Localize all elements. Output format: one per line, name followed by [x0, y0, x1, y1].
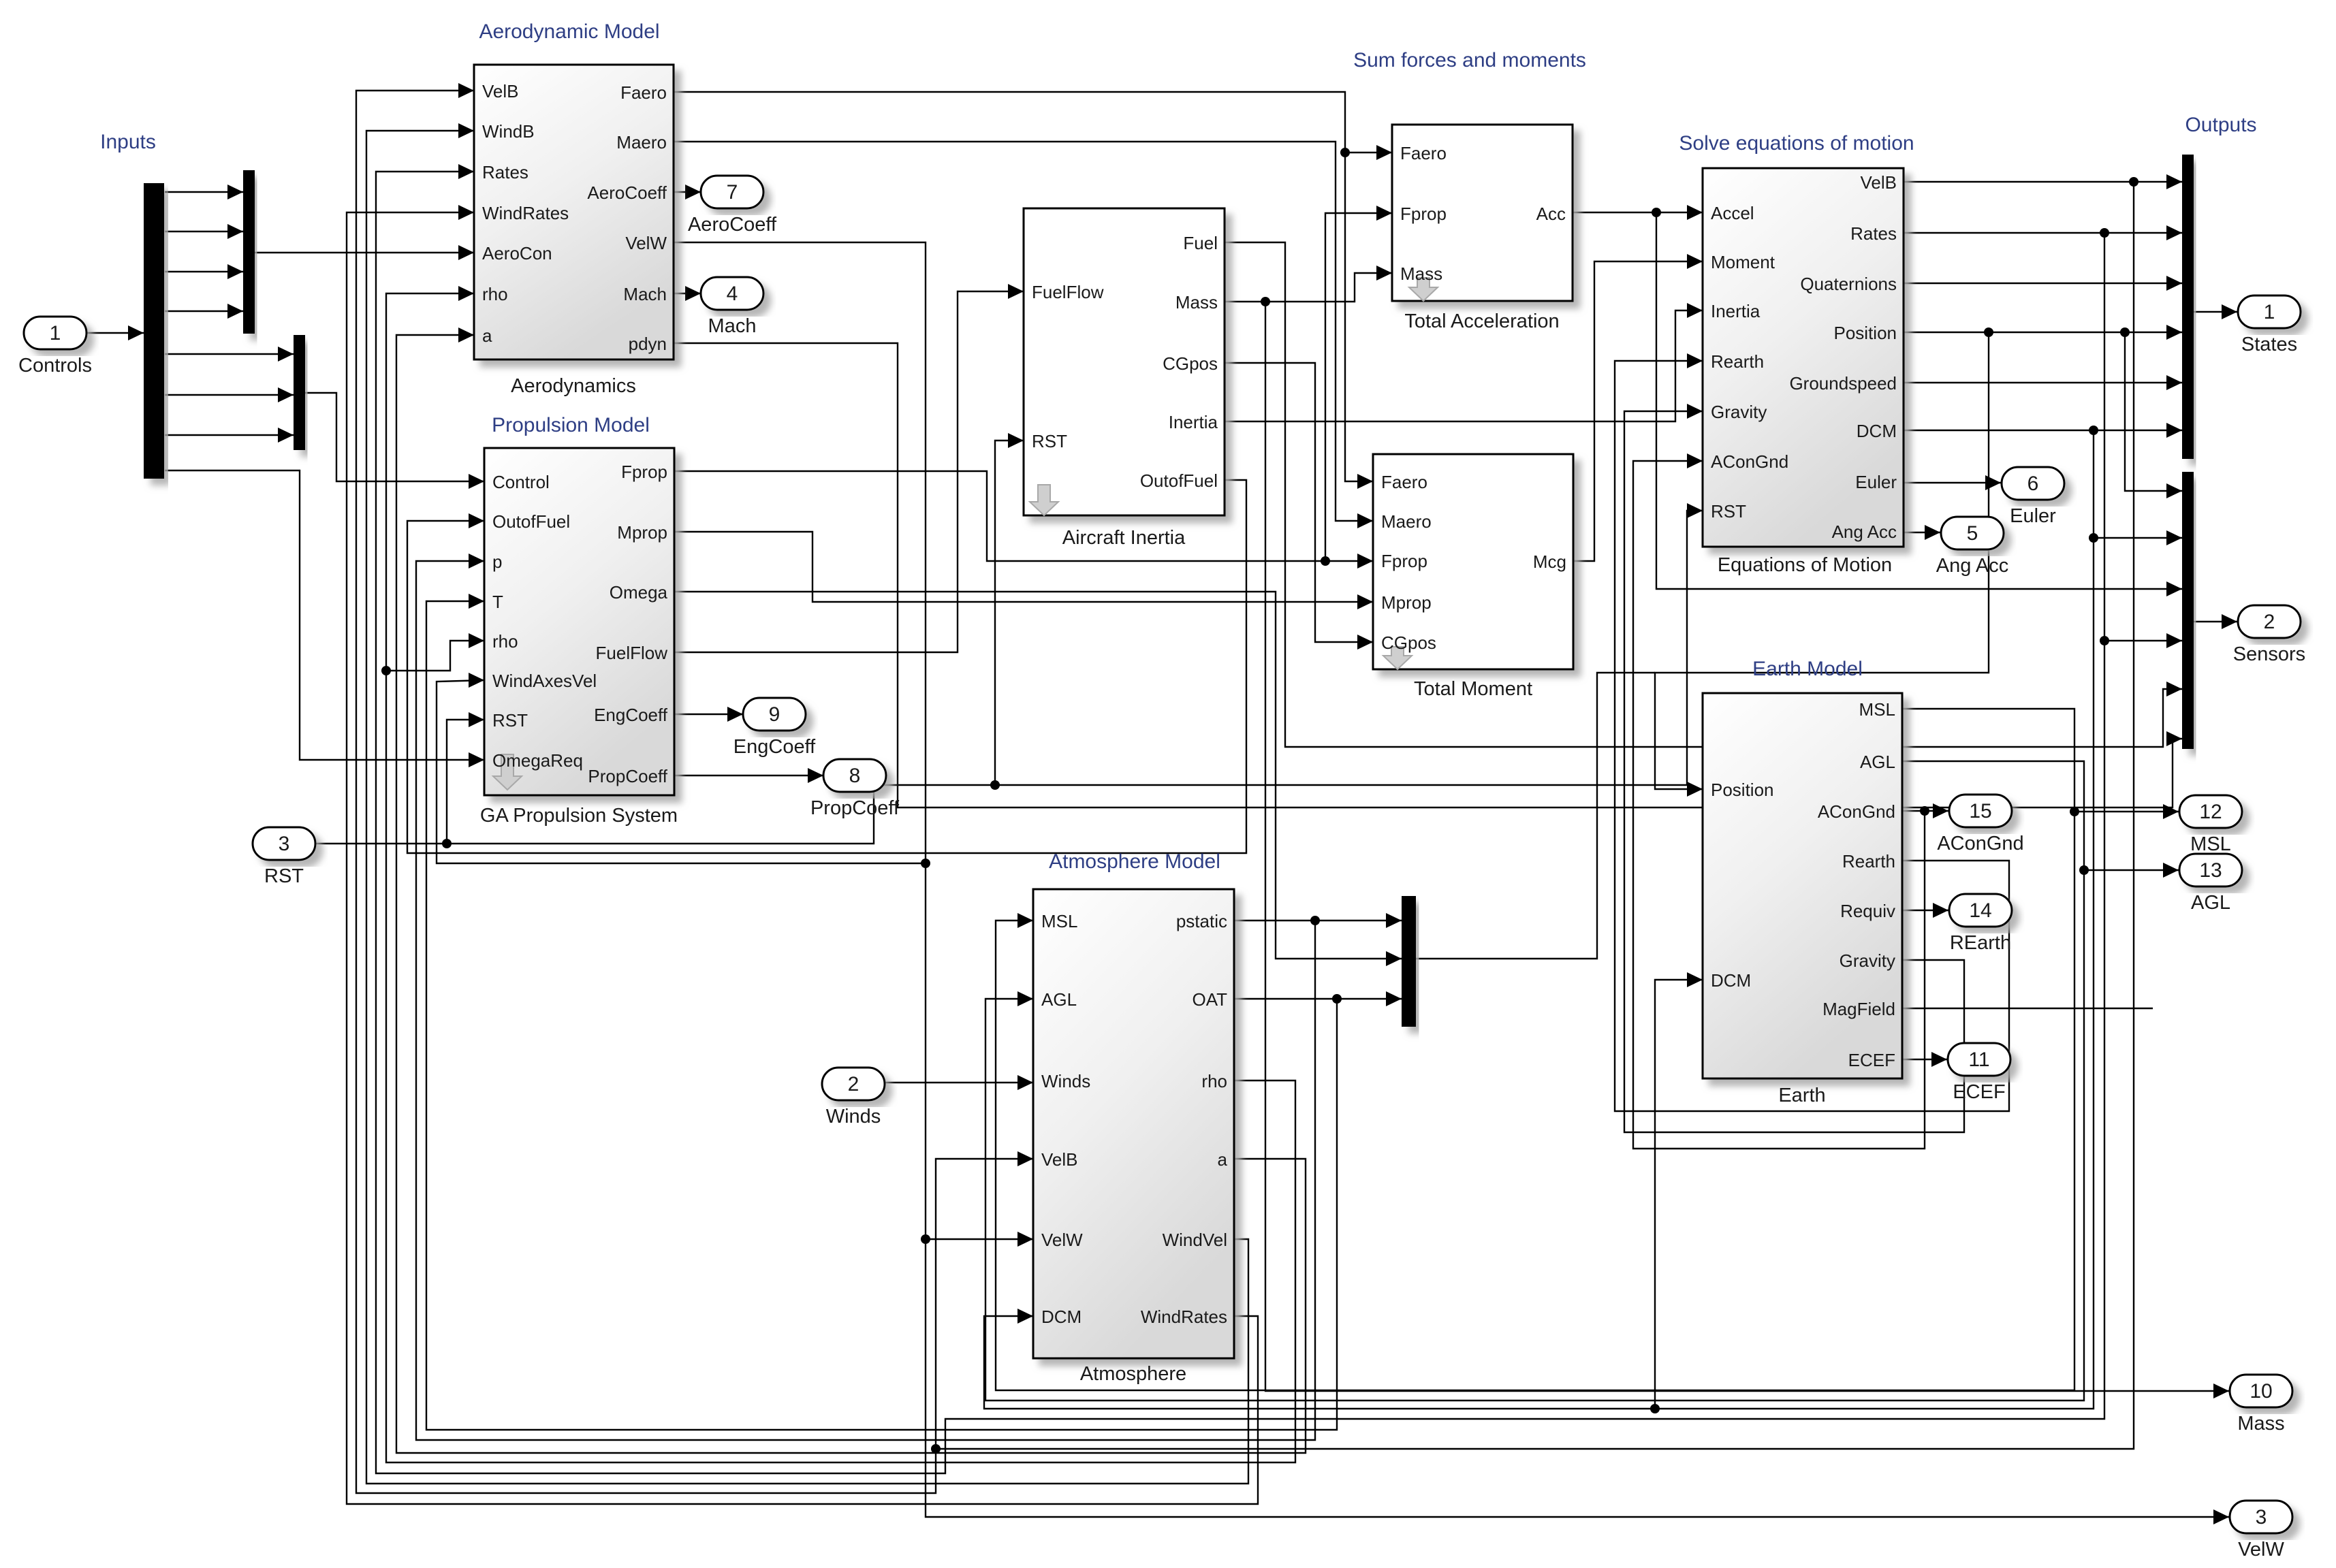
wire demux to mux2 line 4 — [165, 310, 243, 312]
wire VelB feedback — [1904, 181, 2182, 182]
wire DCM branch to Sensors — [2094, 537, 2182, 539]
svg-text:10: 10 — [2250, 1380, 2272, 1403]
svg-text:9: 9 — [769, 703, 780, 726]
wire Position branch to Earth — [1655, 332, 1989, 789]
svg-text:Aerodynamics: Aerodynamics — [511, 375, 636, 397]
svg-text:3: 3 — [279, 833, 290, 855]
svg-text:Outputs: Outputs — [2185, 114, 2256, 136]
svg-text:14: 14 — [1969, 899, 1991, 922]
svg-text:rho: rho — [492, 631, 518, 652]
svg-text:Fprop: Fprop — [621, 462, 667, 482]
svg-text:MSL: MSL — [1041, 911, 1077, 931]
svg-text:Aircraft Inertia: Aircraft Inertia — [1062, 527, 1186, 549]
svg-text:States: States — [2241, 334, 2297, 355]
svg-text:Fprop: Fprop — [1381, 551, 1427, 571]
svg-text:Faero: Faero — [620, 82, 667, 103]
svg-text:pdyn: pdyn — [629, 334, 667, 354]
svg-text:Sum forces and moments: Sum forces and moments — [1353, 49, 1586, 71]
svg-text:DCM: DCM — [1041, 1307, 1082, 1327]
wire Position branch to Sensors — [2125, 332, 2182, 491]
block Equations of Motion — [1703, 168, 1904, 547]
svg-text:12: 12 — [2199, 801, 2222, 823]
svg-text:Gravity: Gravity — [1711, 402, 1767, 422]
outport 5 Ang Acc — [1941, 517, 2004, 549]
wire MSL branch to port 12 — [2074, 811, 2179, 812]
svg-text:Sensors: Sensors — [2233, 643, 2305, 665]
svg-text:DCM: DCM — [1857, 421, 1897, 441]
svg-text:Acc: Acc — [1536, 204, 1566, 224]
wire Faero — [674, 92, 1373, 481]
svg-text:AeroCoeff: AeroCoeff — [587, 182, 667, 203]
svg-text:2: 2 — [2264, 611, 2275, 633]
svg-text:Inertia: Inertia — [1711, 301, 1761, 321]
svg-text:Winds: Winds — [1041, 1071, 1090, 1091]
svg-text:ECEF: ECEF — [1953, 1081, 2005, 1103]
wire RST to Propulsion — [447, 720, 484, 844]
svg-text:Inertia: Inertia — [1169, 412, 1218, 432]
wire CGpos — [1225, 363, 1373, 642]
svg-text:Moment: Moment — [1711, 252, 1775, 272]
svg-text:FuelFlow: FuelFlow — [596, 643, 668, 663]
wire FuelFlow to Aircraft Inertia — [674, 291, 1024, 652]
wire Ang Acc to port 5 — [1904, 532, 1940, 533]
svg-text:7: 7 — [727, 181, 738, 204]
block Total Acceleration — [1392, 125, 1573, 301]
svg-text:rho: rho — [1201, 1071, 1227, 1091]
svg-text:Groundspeed: Groundspeed — [1789, 373, 1897, 394]
svg-text:Rearth: Rearth — [1711, 351, 1764, 372]
svg-text:AeroCon: AeroCon — [482, 243, 552, 263]
svg-text:MSL: MSL — [1859, 699, 1895, 720]
wire demux to OmegaReq — [165, 470, 484, 760]
wire Mcg to EOM Moment — [1573, 261, 1703, 561]
wire Rearth to EOM — [1615, 361, 2009, 1111]
svg-text:VelB: VelB — [482, 81, 519, 101]
wire demux to mux3 line 1 — [165, 353, 294, 355]
svg-text:Mprop: Mprop — [617, 522, 667, 543]
wire Gravity to EOM — [1624, 411, 1964, 1132]
wire mux2 to AeroCon — [255, 252, 474, 253]
svg-text:EngCoeff: EngCoeff — [733, 736, 816, 758]
svg-text:Rates: Rates — [1850, 223, 1897, 244]
wire Requiv to port 14 — [1902, 910, 1948, 911]
svg-text:WindAxesVel: WindAxesVel — [492, 671, 597, 691]
svg-text:Equations of Motion: Equations of Motion — [1718, 554, 1892, 576]
svg-text:WindRates: WindRates — [482, 203, 569, 223]
wire PropCoeff to port 8 — [674, 775, 823, 776]
svg-text:VelB: VelB — [1861, 172, 1897, 193]
svg-text:Mach: Mach — [708, 315, 757, 337]
svg-text:Aerodynamic Model: Aerodynamic Model — [479, 20, 659, 43]
wire OutofFuel feedback — [407, 480, 1246, 853]
svg-text:EngCoeff: EngCoeff — [594, 705, 668, 725]
outport 12 MSL — [2179, 795, 2242, 828]
inport 3 RST — [253, 827, 315, 860]
wire Atmosphere rho output feedback — [386, 293, 1295, 1462]
svg-text:Position: Position — [1834, 323, 1897, 343]
wire Atmosphere mux output — [1416, 673, 1655, 959]
wire rho branch to Propulsion rho — [386, 641, 484, 671]
wire Fprop — [674, 471, 1373, 561]
svg-text:AConGnd: AConGnd — [1937, 833, 2023, 854]
svg-text:AConGnd: AConGnd — [1711, 451, 1788, 472]
svg-text:Fuel: Fuel — [1183, 233, 1218, 253]
wire States mux to port 1 — [2194, 311, 2237, 313]
block Aircraft Inertia — [1024, 208, 1225, 515]
svg-text:3: 3 — [2256, 1506, 2267, 1529]
wire WindVel to Aerodynamics WindB — [366, 131, 1248, 1484]
svg-text:Atmosphere Model: Atmosphere Model — [1049, 850, 1220, 873]
wire VelW trunk — [674, 242, 2229, 1517]
svg-text:Position: Position — [1711, 780, 1774, 800]
wire Rates feedback — [1904, 232, 2182, 234]
svg-text:Earth Model: Earth Model — [1752, 658, 1863, 680]
svg-text:CGpos: CGpos — [1163, 353, 1218, 374]
wire DCM output trunk — [1904, 430, 2182, 431]
svg-text:GA Propulsion System: GA Propulsion System — [480, 805, 678, 827]
svg-text:Mach: Mach — [623, 284, 667, 304]
svg-text:5: 5 — [1967, 522, 1978, 545]
svg-text:Ang Acc: Ang Acc — [1936, 555, 2008, 577]
wire AGL output — [985, 761, 2084, 1401]
svg-text:Faero: Faero — [1400, 143, 1447, 163]
wire Acc branch to Sensors — [1656, 212, 2182, 589]
wire OAT to mux and Propulsion T — [1234, 998, 1402, 999]
svg-text:VelW: VelW — [1041, 1230, 1083, 1250]
svg-text:Accel: Accel — [1711, 203, 1754, 223]
wire Euler to port 6 — [1904, 482, 2001, 483]
svg-text:RST: RST — [492, 710, 528, 731]
svg-text:DCM: DCM — [1711, 970, 1751, 991]
wire demux to mux2 line 3 — [165, 271, 243, 272]
wire Mass output — [1225, 273, 1392, 302]
wire Mprop — [674, 532, 1373, 602]
wire Rates to Sensors — [2104, 640, 2182, 641]
block Total Moment — [1373, 454, 1573, 669]
outport 11 ECEF — [1948, 1043, 2010, 1076]
outport 4 Mach — [701, 277, 763, 310]
svg-text:PropCoeff: PropCoeff — [588, 766, 667, 786]
wire VelW branch to Atmosphere VelW — [926, 1238, 1033, 1240]
wire DCM branch to Earth DCM — [1655, 980, 1703, 1409]
svg-text:AGL: AGL — [2191, 892, 2230, 914]
wire Acc to EOM Accel — [1573, 212, 1703, 213]
svg-text:Inputs: Inputs — [100, 131, 156, 153]
svg-text:Total Acceleration: Total Acceleration — [1404, 310, 1559, 332]
svg-text:Maero: Maero — [1381, 511, 1432, 532]
svg-text:11: 11 — [1968, 1049, 1989, 1071]
wire Quaternions to States — [1904, 283, 2182, 284]
svg-text:Earth: Earth — [1778, 1085, 1825, 1106]
wire RST to Aircraft Inertia — [995, 441, 1024, 785]
svg-text:VelW: VelW — [625, 233, 667, 253]
inport 1 Controls — [24, 317, 86, 349]
svg-text:OutofFuel: OutofFuel — [1140, 470, 1218, 491]
svg-text:p: p — [492, 551, 502, 572]
svg-text:1: 1 — [2264, 301, 2275, 323]
wire MSL output — [996, 709, 2074, 1390]
mux bar lower — [294, 335, 305, 450]
wire RST trunk — [315, 511, 1703, 844]
svg-text:PropCoeff: PropCoeff — [810, 797, 900, 819]
svg-text:Controls: Controls — [18, 355, 92, 377]
wire AeroCoeff to port 7 — [674, 191, 701, 193]
svg-text:Solve equations of motion: Solve equations of motion — [1679, 132, 1914, 155]
wire AGL branch to port 13 — [2084, 869, 2179, 871]
svg-text:REarth: REarth — [1950, 932, 2011, 954]
svg-text:Rates: Rates — [482, 162, 528, 182]
block Earth — [1703, 693, 1902, 1078]
svg-text:Gravity: Gravity — [1840, 950, 1895, 971]
svg-text:a: a — [1218, 1149, 1228, 1170]
mux bar Atmosphere outputs — [1402, 896, 1416, 1027]
inport 2 Winds — [822, 1068, 885, 1100]
svg-text:RST: RST — [1711, 501, 1746, 522]
svg-text:Requiv: Requiv — [1840, 901, 1895, 921]
svg-text:FuelFlow: FuelFlow — [1032, 282, 1104, 302]
svg-text:Euler: Euler — [2010, 505, 2056, 527]
svg-text:WindVel: WindVel — [1163, 1230, 1227, 1250]
wire Sensors mux to port 2 — [2194, 621, 2237, 622]
svg-text:AGL: AGL — [1041, 989, 1077, 1010]
svg-text:Propulsion Model: Propulsion Model — [492, 414, 650, 436]
mux bar upper — [243, 170, 255, 334]
wire Groundspeed to States — [1904, 382, 2182, 383]
svg-text:WindRates: WindRates — [1141, 1307, 1227, 1327]
wire Controls to demux — [86, 332, 144, 334]
wire ECEF to port 11 — [1902, 1059, 1947, 1060]
wire demux to mux3 line 2 — [165, 394, 294, 396]
svg-text:Mcg: Mcg — [1533, 551, 1566, 572]
outport 2 Sensors — [2238, 605, 2301, 638]
svg-text:Omega: Omega — [610, 582, 668, 603]
wire mux3 to Control — [304, 393, 484, 481]
svg-text:Rearth: Rearth — [1842, 851, 1895, 871]
svg-text:OmegaReq: OmegaReq — [492, 750, 583, 771]
block GA Propulsion System — [484, 448, 674, 795]
wire Maero — [674, 142, 1373, 521]
svg-text:VelW: VelW — [2238, 1539, 2284, 1561]
svg-text:Mass: Mass — [1175, 292, 1218, 313]
svg-text:OAT: OAT — [1192, 989, 1227, 1010]
wire MagField — [1902, 1008, 2153, 1009]
svg-text:Faero: Faero — [1381, 472, 1427, 492]
wire WindRates to Aerodynamics WindRates — [347, 212, 1258, 1504]
outport 13 AGL — [2179, 854, 2242, 886]
outport 6 Euler — [2002, 467, 2064, 500]
svg-text:CGpos: CGpos — [1381, 633, 1436, 653]
outport 7 AeroCoeff — [701, 176, 763, 208]
svg-text:2: 2 — [848, 1073, 859, 1095]
svg-text:8: 8 — [849, 765, 861, 787]
wire demux to mux2 line 1 — [165, 191, 243, 193]
svg-text:1: 1 — [50, 322, 61, 345]
outport 9 EngCoeff — [743, 698, 806, 731]
outport 10 Mass — [2230, 1375, 2292, 1407]
svg-text:Mass: Mass — [1400, 263, 1442, 284]
wire Inertia to EOM — [1225, 310, 1703, 421]
svg-text:4: 4 — [727, 283, 738, 305]
outport 1 States — [2238, 295, 2301, 328]
wire Winds input — [885, 1082, 1033, 1083]
svg-text:Control: Control — [492, 472, 550, 492]
svg-text:rho: rho — [482, 284, 508, 304]
svg-text:Mass: Mass — [2237, 1413, 2284, 1435]
wire Atmosphere a output feedback — [396, 335, 1306, 1453]
wire pstatic to mux and Propulsion p — [1234, 920, 1402, 921]
block Atmosphere — [1033, 889, 1234, 1358]
wire Omega to Atmosphere mux — [674, 592, 1402, 959]
svg-text:ECEF: ECEF — [1848, 1050, 1895, 1070]
svg-text:WindB: WindB — [482, 121, 535, 142]
outport 14 REarth — [1949, 894, 2012, 927]
outport 3 VelW — [2230, 1501, 2292, 1533]
svg-text:6: 6 — [2027, 473, 2039, 495]
mux bar Sensors — [2182, 472, 2194, 749]
wire AConGnd to port 15 and EOM — [1902, 810, 1948, 812]
outport 8 PropCoeff — [823, 759, 886, 792]
svg-text:Mprop: Mprop — [1381, 592, 1432, 613]
svg-text:Maero: Maero — [616, 132, 667, 153]
wire VelW branch to WindAxesVel — [437, 680, 926, 863]
svg-text:RST: RST — [1032, 431, 1067, 451]
svg-text:MagField: MagField — [1822, 999, 1895, 1019]
wire Fuel to Sensors — [1225, 242, 2182, 747]
wire pdyn to Sensors — [674, 343, 2182, 807]
svg-text:a: a — [482, 325, 492, 346]
svg-text:AGL: AGL — [1860, 752, 1895, 772]
wire Mach to port 4 — [674, 293, 701, 294]
svg-text:Fprop: Fprop — [1400, 204, 1447, 224]
svg-text:Atmosphere: Atmosphere — [1080, 1363, 1186, 1385]
svg-text:15: 15 — [1969, 800, 1991, 822]
svg-text:Winds: Winds — [826, 1106, 881, 1127]
wire demux to mux2 line 2 — [165, 231, 243, 232]
svg-text:Euler: Euler — [1855, 472, 1897, 492]
svg-text:AeroCoeff: AeroCoeff — [688, 214, 777, 236]
wire EngCoeff to port 9 — [674, 714, 743, 715]
svg-text:MSL: MSL — [2190, 833, 2231, 855]
wire VelB to Atmosphere VelB — [936, 1159, 1033, 1449]
wire Position to States — [1904, 332, 2182, 333]
svg-text:OutofFuel: OutofFuel — [492, 511, 570, 532]
svg-text:T: T — [492, 592, 503, 612]
demux bar Inputs — [144, 183, 164, 479]
svg-text:pstatic: pstatic — [1176, 911, 1227, 931]
wire Mass to port 10 — [1265, 302, 2229, 1391]
svg-text:Total Moment: Total Moment — [1414, 678, 1532, 700]
svg-text:VelB: VelB — [1041, 1149, 1078, 1170]
svg-text:13: 13 — [2199, 859, 2222, 882]
svg-text:AConGnd: AConGnd — [1818, 801, 1895, 822]
wire demux to mux3 line 3 — [165, 434, 294, 436]
block Aerodynamics — [474, 65, 674, 359]
svg-text:Ang Acc: Ang Acc — [1832, 522, 1897, 542]
mux bar States — [2182, 155, 2194, 459]
outport 15 AConGnd — [1949, 795, 2012, 827]
svg-text:Quaternions: Quaternions — [1800, 274, 1897, 294]
svg-text:RST: RST — [264, 865, 304, 887]
